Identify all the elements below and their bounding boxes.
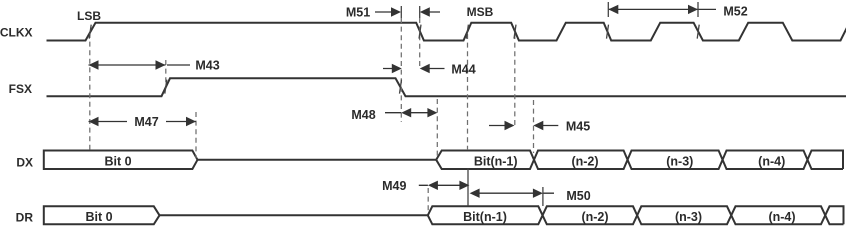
FSX waveform (47, 78, 846, 96)
svg-text:M48: M48 (351, 108, 375, 122)
solid line DX to DR between buses (467, 169, 469, 207)
M51 arrows (375, 11, 440, 13)
M52 arrow (608, 8, 716, 10)
tick on CLKX rise1 (466, 25, 468, 39)
dashed line M45 to DX X1 (533, 100, 535, 153)
M45 arrows (489, 125, 558, 127)
M51 tick left (400, 6, 402, 18)
dashed line at FSX fall (400, 18, 402, 122)
svg-text:DX: DX (16, 156, 33, 170)
svg-text:CLKX: CLKX (0, 26, 33, 40)
DR bus segments top zigzag (428, 206, 844, 224)
svg-text:DR: DR (16, 210, 34, 224)
M49 arrow (419, 184, 460, 186)
CLKX waveform (47, 23, 846, 41)
svg-text:M52: M52 (723, 4, 747, 18)
M47 arrow (89, 121, 197, 123)
tick on CLKX LSB rise (89, 25, 91, 39)
svg-text:M49: M49 (382, 179, 406, 193)
M43 arrow (89, 64, 191, 66)
dashed line at CLKX fall M51 (419, 18, 421, 66)
svg-text:(n-3): (n-3) (666, 154, 693, 168)
svg-text:(n-2): (n-2) (571, 154, 598, 168)
svg-text:(n-4): (n-4) (758, 154, 785, 168)
M44 arrows (383, 68, 445, 70)
dashed line at FSX rise (165, 60, 167, 84)
DR mid-level wire (160, 214, 428, 216)
M52 tick left (607, 2, 609, 17)
dashed line from CLKX LSB rise to DX (89, 33, 91, 150)
svg-text:M47: M47 (134, 115, 158, 129)
tick on FSX rise (165, 80, 167, 94)
dashed line to DX Bit(n-1) start (436, 99, 438, 158)
svg-text:MSB: MSB (467, 5, 494, 19)
M48 arrow (385, 112, 428, 114)
svg-text:(n-4): (n-4) (768, 210, 795, 224)
svg-text:Bit(n-1): Bit(n-1) (474, 154, 518, 168)
svg-text:(n-2): (n-2) (581, 210, 608, 224)
tick on CLKX fall3 (607, 25, 609, 39)
svg-text:(n-3): (n-3) (675, 210, 702, 224)
solid line M50 tick to DR (542, 187, 544, 206)
svg-text:Bit 0: Bit 0 (85, 210, 112, 224)
svg-text:M43: M43 (195, 59, 219, 73)
DX mid-level wire (198, 159, 437, 161)
DR bus Bit 0 (44, 206, 160, 224)
svg-text:FSX: FSX (9, 82, 32, 96)
M52 tick right (697, 2, 699, 17)
tick on CLKX fall1 (419, 25, 421, 39)
tick on CLKX fall2 (514, 25, 516, 39)
tick on FSX fall (400, 80, 402, 94)
M51 tick right (419, 6, 421, 18)
DX bus segments top zigzag (436, 151, 843, 170)
svg-text:M45: M45 (566, 119, 590, 133)
dashed line CLKX fall2 to M45 (514, 34, 516, 127)
tick on CLKX fall4 (697, 25, 699, 39)
svg-text:M44: M44 (451, 63, 475, 77)
svg-text:Bit(n-1): Bit(n-1) (463, 210, 507, 224)
svg-text:M51: M51 (346, 6, 370, 20)
svg-text:LSB: LSB (77, 9, 101, 23)
svg-text:Bit 0: Bit 0 (104, 154, 131, 168)
dashed line M49 to DR start (427, 188, 429, 212)
DX bus Bit 0 (44, 151, 198, 170)
M50 arrow (479, 192, 554, 194)
DX bus segments bottom zigzag (436, 151, 843, 170)
dashed line at DX Bit 0 end (195, 112, 197, 158)
svg-text:M50: M50 (566, 189, 590, 203)
DR bus segments bottom zigzag (428, 206, 844, 224)
dashed line CLKX rise to DX (467, 34, 469, 150)
